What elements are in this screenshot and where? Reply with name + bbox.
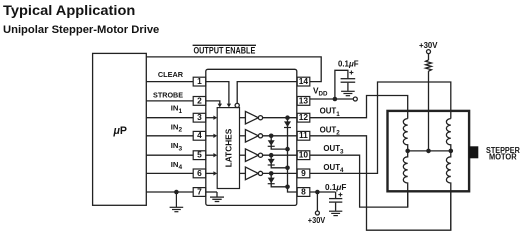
label +30V (bottom) [308,215,326,225]
svg-text:11: 11 [299,130,308,140]
clamp diode D2 branch [268,136,288,149]
label OUT2 [320,125,341,136]
pin 11 box [297,130,310,140]
stepper motor housing [388,111,470,191]
motor center tap wire [408,150,451,152]
svg-text:IN1: IN1 [171,104,183,115]
wire: OUT1 from pin 12 to motor phase 1 [310,96,408,119]
svg-text:IN3: IN3 [171,141,183,152]
svg-text:STROBE: STROBE [153,90,183,99]
node dot center tap right [449,149,454,154]
svg-text:Unipolar Stepper-Motor Drive: Unipolar Stepper-Motor Drive [3,24,159,36]
pin 6 box [193,168,206,178]
latches block [217,108,239,189]
svg-text:12: 12 [299,112,309,122]
pin 5 box [193,150,206,160]
svg-text:OUT3: OUT3 [323,144,344,155]
node dot output 1 bus [285,115,290,120]
terminal +30V (open circle, top) [427,50,431,54]
node dot output 3 [269,153,274,158]
svg-text:LATCHES: LATCHES [223,128,233,167]
label 0.1uF (clamp bypass) [325,183,346,192]
node dot center tap left [405,149,410,154]
plus sign of capacitor C1 [349,71,353,75]
motor shaft (black square) [469,146,478,158]
IC body U1 [206,69,297,205]
wire: IN4 row from uP to pin 6 [146,172,193,174]
wire: capacitor C1 to ground [347,83,349,91]
title: Typical Application [3,3,135,18]
wire: IN2 row from uP to pin 4 [146,135,193,137]
wire: STROBE row from uP to pin 2 [146,100,193,102]
wire: CLEAR row from uP to pin 1 [146,81,193,83]
node dot output 4 [269,171,274,176]
internal wire: IN3 into latches with right arrow [206,153,217,157]
clamp diode D3 branch [268,155,288,168]
pin 1 box [193,76,206,86]
node dot bus junction C [285,185,290,190]
internal wire: IN2 into latches with right arrow [206,134,217,138]
svg-text:Typical Application: Typical Application [3,3,135,18]
svg-text:OUTPUT ENABLE: OUTPUT ENABLE [194,45,256,56]
svg-text:VDD: VDD [313,86,328,98]
wire: IN3 row from uP to pin 5 [146,154,193,156]
terminal +30V (open circle, bottom) [315,211,319,215]
svg-text:OUT1: OUT1 [320,107,341,118]
ground symbol below uP-pin7 wire [170,192,184,212]
wire: node to +30V terminal [316,192,318,211]
wire: capacitor C2 to ground [335,203,337,211]
wire: IN1 row from uP to pin 3 [146,117,193,119]
wire: buffer 4 output to pin 9 [263,172,298,174]
label OUT3 [323,144,344,155]
plus sign of capacitor C2 [338,193,342,197]
svg-text:OUT4: OUT4 [323,163,344,174]
node dot clamp supply [315,190,320,195]
pin 3 box [193,112,206,122]
node dot bus junction A [285,147,290,152]
overline bar for OUTPUT ENABLE [193,44,256,46]
subtitle: Unipolar Stepper-Motor Drive [3,24,159,36]
wire: OUT2 from pin 11 to motor phase 2 [310,136,451,230]
wire: pin 8 row into capacitor C2 [335,192,337,198]
svg-text:IN2: IN2 [171,122,183,133]
wire: VDD to bypass capacitor [335,70,348,99]
svg-text:CLEAR: CLEAR [158,70,184,79]
internal wire: STROBE to latches with down arrow [206,101,222,108]
internal wire: IN1 into latches with right arrow [206,116,217,120]
ground symbol below C1 [341,91,355,95]
svg-text:MOTOR: MOTOR [489,152,517,162]
wire: OUT3 from pin 10 to motor phase 3 [310,155,408,207]
wire: +30V terminal to resistor R1 [428,54,430,60]
ground symbol below C2 [329,211,342,215]
label STEPPER MOTOR [486,145,520,161]
capacitor C2 plates [329,199,342,203]
pin 8 box [297,186,310,196]
node dot VDD [333,97,338,102]
junction dot on ground row [174,190,179,195]
pin 14 box [297,76,310,86]
svg-text:13: 13 [299,95,309,105]
wire: OUT4 from pin 9 to motor phase 4 [310,82,451,173]
label OUT4 [323,163,344,174]
svg-text:4: 4 [197,130,202,140]
clamp diode D1 [284,121,291,127]
buffer driver 2 [240,130,263,143]
internal wire: OUTPUT ENABLE from pin 14 to latches bubble [235,82,297,108]
wire: pin 8 clamp common row [310,191,336,193]
pin 7 box [193,186,206,196]
clamp diode D4 branch [268,173,288,186]
pin 13 box [297,95,310,105]
net label OUTPUT ENABLE (active low) [194,45,256,56]
wire: buffer 2 output to pin 11 [263,135,298,137]
pin 4 box [193,130,206,140]
node dot bus junction B [285,166,290,171]
wire: OUTPUT ENABLE from uP top to pin 14 [146,57,321,82]
terminal VDD (open circle) [353,97,357,101]
internal wire: pin 7 to IC ground [206,192,224,202]
internal wire: CLEAR to latches with down arrow [206,82,231,108]
node dot center tap middle [426,149,431,154]
svg-text:6: 6 [197,168,202,178]
wire: buffer 1 output to pin 12 [263,117,298,119]
motor winding L3 (lower left) [403,151,407,207]
pin 9 box [297,168,310,178]
buffer driver 1 [240,111,263,124]
svg-text:14: 14 [299,76,309,86]
wire: buffer 3 output to pin 10 [263,154,298,156]
label +30V (top) [419,40,438,50]
svg-text:9: 9 [301,168,306,178]
motor winding L4 (lower right) [446,151,450,230]
svg-text:IN4: IN4 [171,160,183,171]
svg-text:0.1μF: 0.1μF [338,60,359,69]
svg-text:2: 2 [197,95,202,105]
clamp diode bus to pin 8 [288,118,298,192]
buffer driver 4 [240,167,263,180]
internal wire: IN4 into latches with right arrow [206,171,217,175]
pin 12 box [297,112,310,122]
label OUT1 [320,107,341,118]
svg-text:3: 3 [197,112,202,122]
pin 2 box [193,95,206,105]
microprocessor block uP [93,53,147,205]
capacitor C1 plates [341,79,356,83]
label VDD [313,86,328,98]
resistor R1 [426,60,432,71]
svg-text:8: 8 [301,186,306,196]
pin 10 box [297,150,310,160]
svg-text:OUT2: OUT2 [320,125,341,136]
label 0.1uF (VDD bypass) [338,60,359,69]
svg-text:μP: μP [113,125,127,137]
svg-text:0.1μF: 0.1μF [325,183,346,192]
wire: pin 13 VDD row to supply terminal [310,98,353,100]
motor winding L1 (upper left) [403,119,407,151]
svg-text:7: 7 [197,186,202,196]
svg-text:+30V: +30V [308,215,326,225]
wire: ground row from uP to pin 7 [146,191,193,193]
buffer driver 3 [240,149,263,162]
wire: resistor R1 to motor common center tap [428,71,430,151]
motor winding L2 (upper right) [446,119,450,151]
svg-text:5: 5 [197,150,202,160]
svg-text:1: 1 [197,76,202,86]
svg-text:10: 10 [299,150,309,160]
svg-text:+30V: +30V [419,40,438,50]
node dot output 2 [269,134,274,139]
